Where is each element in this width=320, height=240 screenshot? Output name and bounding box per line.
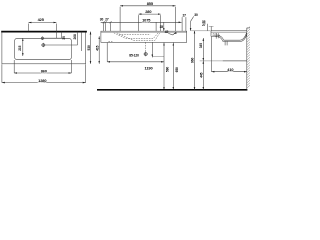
dim 1190 (107, 61, 164, 63)
side deck top (211, 30, 247, 32)
svg-text:85-120: 85-120 (129, 53, 139, 57)
drain leader line (45, 44, 78, 46)
svg-text:280: 280 (145, 9, 151, 14)
mini dim 35 (61, 32, 63, 39)
dim 1075 (101, 21, 182, 23)
mini dim 35 mid (155, 23, 157, 32)
drain circle below slab (144, 53, 147, 56)
svg-text:445: 445 (200, 72, 204, 77)
dim 415 vertical (98, 36, 100, 64)
svg-text:345: 345 (199, 43, 203, 48)
svg-text:27: 27 (182, 14, 186, 18)
drain circle (42, 44, 45, 47)
svg-text:35: 35 (62, 36, 66, 40)
svg-text:27: 27 (202, 23, 206, 27)
svg-text:960: 960 (191, 58, 195, 63)
side deck ledge (211, 32, 247, 34)
front slab inner ledge line (101, 32, 187, 34)
svg-text:215: 215 (18, 45, 22, 50)
dim 1280 (2, 82, 86, 84)
faucet leader line (44, 37, 62, 39)
svg-text:410: 410 (227, 67, 233, 72)
svg-text:860: 860 (41, 68, 47, 73)
svg-text:35: 35 (160, 25, 164, 29)
mini tick 27 left (105, 23, 107, 31)
wall line (246, 28, 248, 90)
dim 280 (139, 13, 161, 15)
hidden rim dashed line (119, 33, 150, 35)
svg-text:425: 425 (38, 17, 45, 22)
svg-text:1190: 1190 (144, 66, 152, 71)
mini dim 208 (77, 32, 79, 45)
wall hatching (247, 27, 250, 89)
trap pipe stubs (224, 41, 226, 45)
svg-text:855: 855 (147, 1, 154, 6)
floor line thick (97, 89, 247, 91)
svg-text:1280: 1280 (38, 78, 46, 83)
mini dim 27 right (181, 17, 183, 31)
bowl hidden outer profile dashed (117, 33, 160, 41)
svg-text:30: 30 (194, 13, 198, 17)
overflow detail (213, 34, 221, 37)
dim 855 top (120, 5, 176, 7)
side front edge (210, 31, 212, 37)
svg-text:415: 415 (96, 45, 100, 50)
dim 215 vertical inside bowl (22, 38, 24, 56)
aux vline right of plan (81, 32, 83, 51)
svg-text:30: 30 (100, 18, 104, 22)
dim 960 vertical (194, 31, 196, 90)
svg-text:208: 208 (73, 34, 77, 39)
plan outer rect (2, 32, 86, 64)
svg-text:650: 650 (175, 67, 179, 72)
faucet hole circle (41, 37, 43, 39)
bowl hidden inner profile dashed (114, 33, 158, 39)
aux vline and hline (151, 42, 153, 57)
svg-text:1075: 1075 (142, 18, 151, 23)
plan back edge thick (1, 31, 87, 33)
mini tick 30 left (103, 23, 105, 31)
dim 445 vertical (202, 61, 204, 90)
dim 345 vertical (202, 38, 204, 61)
svg-text:590: 590 (166, 67, 170, 72)
dim 590 vertical (163, 43, 165, 90)
svg-text:45: 45 (165, 30, 169, 34)
screw dashes (108, 41, 112, 43)
side bowl section inner (212, 33, 246, 40)
dim 410 (212, 71, 247, 73)
svg-text:27: 27 (105, 17, 109, 21)
dim 425 (29, 22, 57, 24)
plan bowl rounded rect (15, 38, 72, 59)
outlet line (200, 60, 247, 62)
dim 860 (14, 72, 71, 74)
svg-text:530: 530 (87, 45, 91, 50)
drain dashed centerline (145, 42, 147, 52)
front slab outline (101, 31, 187, 42)
dim 650 vertical (172, 43, 174, 90)
dim 530 vertical right of plan (90, 32, 92, 64)
side bowl section outer (211, 33, 247, 41)
